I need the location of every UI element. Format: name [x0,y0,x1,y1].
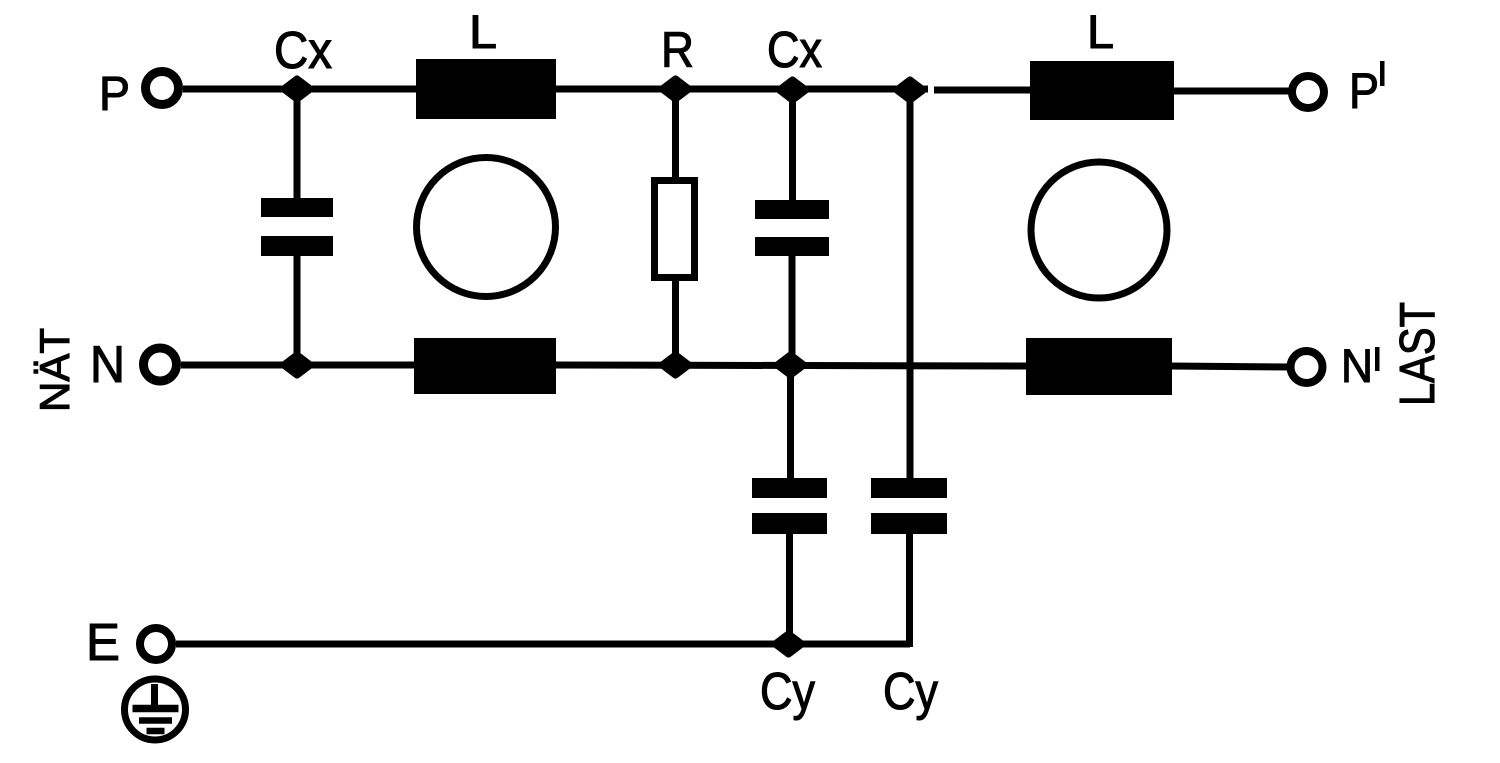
svg-text:Cx: Cx [274,22,332,80]
ground symbol stem [151,684,158,708]
ground symbol bar 3 [147,728,165,735]
svg-text:L: L [469,5,497,58]
inductor L2 winding top [1030,61,1174,120]
wire Cx2 bottom stub [789,254,796,365]
ground symbol bar 1 [133,705,179,713]
node Cx1 bottom on N line [285,356,310,375]
node Cy junction on E line [776,635,801,654]
wire R bottom stub [672,278,679,365]
wire Cx1 bottom stub [294,254,301,365]
wire P line right segment to P' [1170,88,1290,95]
wire R top stub [672,89,679,181]
wire E line [176,641,910,648]
svg-text:LAST: LAST [1391,302,1445,406]
node Cy2 tap on P line [898,81,923,100]
inductor L1 core circle [417,158,556,297]
svg-text:P: P [1349,63,1379,119]
terminal P [146,72,179,105]
wire Cx1 top stub [294,89,301,200]
svg-text:Cy: Cy [760,663,815,721]
wire Cy1 top stub [787,365,794,480]
ground symbol circle [125,679,186,740]
inductor L2 core circle [1031,162,1167,298]
capacitor Cx1 bottom plate [261,236,333,256]
terminal P' [1292,76,1324,108]
node Cx1 on P line [285,80,310,99]
capacitor Cy1 bottom plate [752,513,827,534]
inductor L1 winding top [416,59,556,119]
svg-text:E: E [86,614,120,672]
wire Cy2 drop from P line node [907,90,914,480]
capacitor Cy2 top plate [871,478,947,498]
wire Cy1 bottom stub [786,532,793,644]
wire P line left segment [183,86,928,93]
capacitor Cy1 top plate [752,478,827,498]
label N' prime mark [1375,347,1380,371]
wire N line mid segment [554,365,1030,366]
svg-text:N: N [1341,339,1373,392]
svg-text:L: L [1087,5,1114,58]
terminal N' [1291,351,1323,383]
node Cx2 on P line [780,81,805,100]
node Cy1 tap on N line [778,356,803,375]
capacitor Cy2 bottom plate [871,513,947,534]
terminal N [144,348,177,381]
wire P line mid segment after node [934,87,1032,94]
wire Cy2 bottom stub to E line [906,532,913,647]
svg-text:R: R [661,22,694,78]
svg-text:P: P [99,68,130,121]
node R top on P line [663,80,688,99]
svg-text:Cx: Cx [767,21,822,78]
terminal E [140,628,172,660]
wire N line right segment to N' [1170,366,1289,367]
resistor R body [655,181,695,278]
svg-text:Cy: Cy [883,663,938,721]
inductor L2 winding bottom [1026,338,1172,395]
ground symbol bar 2 [139,717,172,724]
capacitor Cx2 bottom plate [755,237,829,256]
wire Cx2 top stub [789,90,796,202]
wire N line left segment [181,362,418,369]
label P' prime mark [1380,61,1385,86]
inductor L1 winding bottom [414,338,556,394]
svg-text:NÄT: NÄT [31,328,78,412]
capacitor Cx1 top plate [261,198,333,217]
capacitor Cx2 top plate [755,200,829,219]
svg-text:N: N [90,336,125,394]
node R bottom on N line [663,356,688,375]
